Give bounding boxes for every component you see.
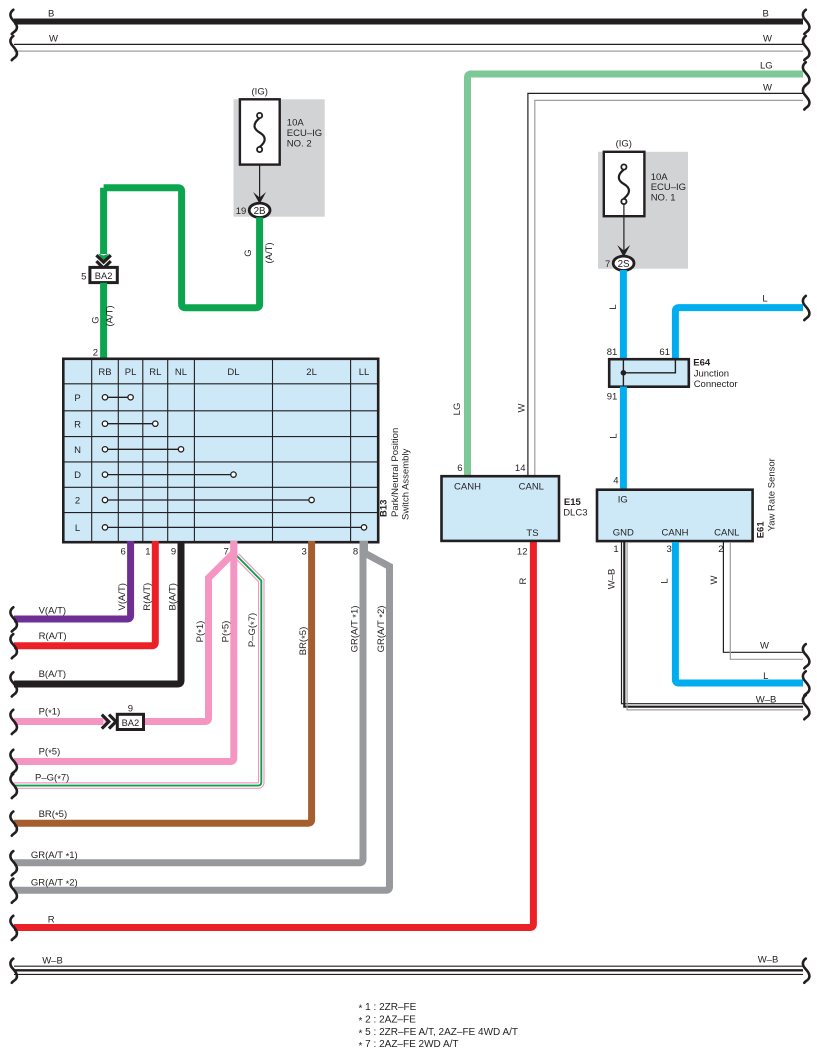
svg-text:E15: E15 [564,497,582,508]
wire G green zigzag from 2B to B13 [104,188,260,308]
arrowhead into 2B [253,192,266,204]
rotated labels on vertical wires below B13 [117,583,389,655]
svg-text:P(*1): P(*1) [39,706,61,719]
B13 grid horizontal lines [63,384,378,513]
svg-text:1: 1 [145,547,150,558]
fuse ECU-IG NO.2 gray background [234,99,325,216]
svg-text:V(A/T): V(A/T) [117,583,128,610]
svg-text:3: 3 [302,547,307,558]
svg-text:N: N [74,445,81,456]
connector oval 2S [613,256,634,270]
svg-text:2L: 2L [306,367,317,378]
fuse ECU-IG NO.1 gray background [598,152,688,269]
svg-text:RB: RB [98,367,111,378]
svg-text:2: 2 [75,496,80,507]
chevrons BA2 horizontal [102,715,109,729]
svg-text:LL: LL [359,367,370,378]
svg-text:10A: 10A [287,118,305,129]
DLC3 E15 box [442,476,560,541]
break squiggle W2 right [803,85,810,109]
svg-text:P–G(*7): P–G(*7) [247,613,260,647]
wire BR(*5) brown [14,541,312,823]
svg-text:E64: E64 [693,358,711,369]
svg-text:R: R [48,914,55,925]
svg-text:W: W [709,575,720,584]
B13 row labels [74,393,81,534]
svg-text:E61: E61 [756,521,767,539]
wire W-B bottom long [14,966,803,975]
svg-text:NO. 1: NO. 1 [651,192,676,203]
wire G arrow tip into BA2 [98,254,109,263]
svg-text:2S: 2S [618,259,630,270]
wire W from E61 CANL to right edge [723,542,803,652]
footnotes [359,1002,519,1052]
svg-text:P–G(*7): P–G(*7) [35,773,69,786]
svg-text:IG: IG [618,495,628,506]
left edge labels [31,605,78,966]
arrowhead into 2S [617,245,630,257]
svg-text:B13: B13 [378,500,389,517]
wire B top horizontal [14,19,803,25]
svg-text:P(*1): P(*1) [195,621,208,643]
left edge break squiggles [10,607,17,631]
contact row D [102,472,236,477]
wire P-G(*7) pink/green striped [14,556,261,786]
svg-text:R(A/T): R(A/T) [142,583,153,611]
svg-text:91: 91 [607,392,618,403]
svg-text:DLC3: DLC3 [563,508,587,519]
break squiggle L right [803,296,810,320]
right edge squiggle bottom W-B [803,959,810,983]
break squiggle LG right [803,62,810,86]
svg-text:GR(A/T *1): GR(A/T *1) [350,606,363,653]
svg-text:V(A/T): V(A/T) [39,605,66,616]
svg-text:2B: 2B [254,206,266,217]
svg-text:* 1 : 2ZR–FE: * 1 : 2ZR–FE [359,1002,417,1015]
svg-text:B: B [48,9,54,20]
wire R red long to DLC3 TS [14,541,533,928]
wire L blue from 2S down to E64 [620,270,627,360]
connector BA2 (pink wire) [117,714,143,729]
svg-text:1: 1 [613,544,618,555]
switch assembly B13 box [63,359,378,542]
wire fuse 2S to connector [623,204,625,251]
svg-text:G: G [91,316,102,323]
contact row 2 [102,497,314,502]
svg-text:6: 6 [121,547,126,558]
svg-text:* 2 : 2AZ–FE: * 2 : 2AZ–FE [359,1014,417,1027]
break squiggle L right bottom [803,671,810,695]
svg-text:GR(A/T *2): GR(A/T *2) [376,606,389,653]
svg-text:12: 12 [517,547,528,558]
svg-text:Junction: Junction [694,369,729,380]
svg-text:* 5 : 2ZR–FE A/T, 2AZ–FE 4WD: * 5 : 2ZR–FE A/T, 2AZ–FE 4WD A/T [359,1027,519,1040]
svg-text:RL: RL [149,367,161,378]
contact row R [102,421,158,426]
svg-text:P: P [74,393,80,404]
fuse 10A ECU-IG NO.2 body [240,99,280,164]
svg-text:PL: PL [125,367,137,378]
svg-text:CANH: CANH [454,482,481,493]
svg-text:ECU–IG: ECU–IG [287,128,322,139]
svg-text:61: 61 [659,347,670,358]
break squiggle W-B right [803,695,810,719]
wire P(*1) arrow tip into BA2 [103,716,109,727]
break squiggle W left [10,36,17,60]
B13 column headers [98,367,369,378]
svg-text:W: W [760,641,769,652]
svg-text:TS: TS [526,528,538,539]
svg-text:B: B [763,9,769,20]
wire W-B from E61 GND to right edge [622,542,804,704]
svg-text:W: W [763,83,772,94]
svg-text:L: L [608,304,619,309]
svg-text:W–B: W–B [607,569,618,590]
wire B(A/T) black [14,541,181,684]
svg-text:CANL: CANL [714,528,739,539]
svg-text:6: 6 [457,463,462,474]
svg-text:R: R [518,577,529,584]
svg-text:BA2: BA2 [122,718,140,728]
svg-text:P(*5): P(*5) [39,746,61,759]
svg-text:GR(A/T *2): GR(A/T *2) [31,877,78,890]
svg-text:NO. 2: NO. 2 [287,139,312,150]
svg-text:4: 4 [613,476,618,487]
svg-text:(IG): (IG) [616,139,632,150]
pin labels below B13 [121,547,359,558]
svg-text:LG: LG [760,61,773,72]
svg-text:GND: GND [613,528,634,539]
contact row P [102,395,133,400]
svg-text:(IG): (IG) [252,87,268,98]
svg-text:L: L [762,294,767,305]
svg-text:8: 8 [353,547,358,558]
E64 internal link [623,359,675,387]
svg-text:L: L [75,523,80,534]
svg-text:(A/T): (A/T) [264,242,275,263]
break squiggle B left [10,10,17,34]
svg-text:14: 14 [515,463,526,474]
svg-text:(A/T): (A/T) [104,305,115,326]
wire GR(A/T *1) gray [14,541,363,863]
svg-text:Switch Assembly: Switch Assembly [400,448,411,520]
svg-text:Connector: Connector [694,379,738,390]
svg-text:W–B: W–B [42,956,63,967]
svg-text:L: L [660,578,671,583]
svg-text:CANL: CANL [519,482,544,493]
wire L blue from right edge to E64 pin 61 [675,308,803,360]
svg-text:Yaw Rate Sensor: Yaw Rate Sensor [767,458,778,531]
contact row L [102,525,366,530]
svg-text:NL: NL [175,367,187,378]
wire W second from right edge down to DLC3 CANL pin 14 [528,93,803,476]
svg-text:81: 81 [607,347,618,358]
wire G below BA2 to table [100,283,107,359]
svg-text:3: 3 [667,544,672,555]
connector oval 2B [249,203,270,217]
wire V(A/T) purple [14,541,131,619]
svg-text:W–B: W–B [756,695,777,706]
svg-text:BR(*5): BR(*5) [39,809,68,822]
svg-text:19: 19 [236,206,247,217]
wire W top horizontal (white wire, two lines) [14,43,803,45]
wire P(*5) pink straight [14,541,234,762]
wire GR(A/T *2) gray [14,541,390,890]
wire LG from right edge down to DLC3 CANH pin 6 [468,74,804,476]
break squiggle W right bottom [803,644,810,668]
svg-text:LG: LG [452,403,463,416]
break squiggle B right [803,10,810,34]
svg-text:BA2: BA2 [95,271,113,281]
svg-text:7: 7 [605,259,610,270]
svg-text:G: G [243,249,254,256]
chevrons BA2 vertical [96,255,110,262]
junction connector E64 [609,359,689,387]
svg-text:B(A/T): B(A/T) [39,669,66,680]
svg-text:* 7 : 2AZ–FE 2WD A/T: * 7 : 2AZ–FE 2WD A/T [359,1039,459,1052]
connector BA2 (green wire) [90,267,117,282]
svg-text:2: 2 [93,348,98,359]
svg-text:L: L [763,671,768,682]
wire fuse 2B to connector [259,165,261,199]
svg-text:GR(A/T *1): GR(A/T *1) [31,850,78,863]
svg-text:B(A/T): B(A/T) [168,583,179,610]
contact row N [102,447,183,452]
svg-text:9: 9 [128,704,133,715]
svg-text:W–B: W–B [758,955,779,966]
wire L blue E64 to E61 IG [620,387,627,491]
svg-text:R(A/T): R(A/T) [39,631,67,642]
svg-text:CANH: CANH [662,528,689,539]
svg-text:D: D [74,470,81,481]
svg-text:5: 5 [81,272,86,283]
svg-text:9: 9 [171,547,176,558]
svg-text:2: 2 [718,544,723,555]
svg-text:DL: DL [227,367,239,378]
svg-text:R: R [74,419,81,430]
fuse 10A ECU-IG NO.1 body [604,152,645,216]
yaw rate sensor E61 box [597,490,753,541]
svg-text:L: L [609,433,620,438]
svg-text:W: W [49,34,58,45]
B13 grid vertical lines [92,359,351,542]
svg-text:BR(*5): BR(*5) [298,627,311,656]
break squiggle W right [803,36,810,60]
svg-text:W: W [517,403,528,412]
svg-text:W: W [763,34,772,45]
wire R(A/T) red [14,541,155,646]
svg-text:P(*5): P(*5) [220,621,233,643]
wire L blue from E61 CANH to right edge [675,542,803,683]
wire P(*1) pink from pin 7 via BA2 [143,541,234,722]
